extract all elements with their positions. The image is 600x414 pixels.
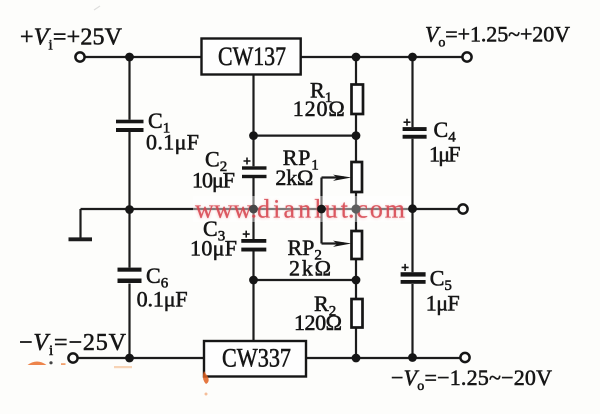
node terminal common [458, 204, 467, 213]
wire bottom rail right [307, 357, 462, 359]
resistor R2 [352, 299, 363, 328]
wire top rail right [301, 56, 464, 58]
capacitor C2 [242, 158, 267, 179]
svg-text:Vo=+1.25~+20V: Vo=+1.25~+20V [425, 22, 570, 51]
svg-text:CW137: CW137 [218, 42, 286, 71]
label C3 [190, 216, 237, 261]
watermark overlay [193, 195, 411, 225]
svg-text:0.1μF: 0.1μF [137, 287, 188, 312]
ground [69, 209, 93, 239]
wire RP2 wiper arm [322, 242, 345, 244]
label C4 [429, 117, 461, 166]
capacitor C1 [116, 120, 144, 132]
node terminal output positive [462, 52, 471, 61]
wire resistor string vertical [355, 57, 357, 358]
resistor RP2 potentiometer body [333, 231, 362, 259]
resistor R1 [352, 85, 364, 115]
capacitor C4 [403, 119, 427, 139]
svg-text:2kΩ: 2kΩ [275, 165, 313, 190]
node junction top rail at C1 [125, 53, 134, 62]
node junction adj+ at R1 bottom [352, 131, 361, 140]
svg-text:−Vi=−25V: −Vi=−25V [19, 330, 127, 359]
node junction top rail at C4 [408, 53, 417, 62]
node junction bottom rail at R2 [352, 354, 361, 363]
label R1 [293, 78, 345, 122]
decorative orange scan artifacts [28, 6, 209, 396]
label input positive voltage [20, 24, 123, 53]
svg-text:1μF: 1μF [429, 142, 461, 167]
node junction adj- at R2 top [352, 276, 361, 285]
node junction top rail at R1 [352, 53, 361, 62]
node junction mid rail at pot string [351, 204, 360, 213]
IC U1 regulator CW137 [202, 39, 301, 75]
svg-text:120Ω: 120Ω [293, 96, 345, 121]
wire mid common rail [81, 208, 459, 210]
wire top rail left [84, 56, 202, 58]
label C6 [137, 263, 188, 312]
wire output cap branch vertical [411, 57, 413, 358]
node junction mid rail at wiper stub [317, 205, 326, 214]
svg-text:CW337: CW337 [222, 344, 291, 373]
IC U2 regulator CW337 [204, 341, 306, 377]
label C5 [426, 266, 460, 316]
capacitor C6 [118, 268, 142, 283]
svg-text:2kΩ: 2kΩ [289, 256, 331, 281]
label C2 [192, 147, 235, 193]
node junction mid rail at C2 [249, 205, 258, 214]
node terminal input positive [75, 52, 84, 61]
wire adj+ horizontal [254, 135, 357, 137]
node junction bottom rail at C6 branch [125, 354, 134, 363]
wire left vertical branch [128, 57, 130, 358]
node terminal output negative [460, 353, 469, 362]
wire CW137 adj pin vertical [252, 75, 254, 343]
svg-text:+Vi=+25V: +Vi=+25V [20, 24, 123, 53]
label C1 [146, 108, 199, 155]
svg-text:−Vo=−1.25~−20V: −Vo=−1.25~−20V [391, 365, 552, 394]
svg-text:1μF: 1μF [426, 291, 460, 316]
resistor RP1 potentiometer body [333, 162, 362, 192]
node junction mid rail at C1 branch [125, 205, 134, 214]
wire RP1 wiper arm [322, 176, 345, 178]
wire bottom rail left [77, 357, 204, 359]
capacitor C5 [401, 264, 426, 284]
node junction adj+ at CW137 [249, 131, 258, 140]
label R2 [294, 291, 342, 335]
svg-text:120Ω: 120Ω [294, 310, 342, 335]
node junction bottom rail at C5 branch [408, 353, 417, 362]
svg-text:10μF: 10μF [192, 168, 235, 193]
svg-text:0.1μF: 0.1μF [146, 130, 199, 155]
label output positive voltage [425, 22, 570, 51]
label input negative voltage [19, 330, 127, 359]
capacitor C3 [241, 231, 266, 252]
node junction adj- at CW337 [249, 276, 258, 285]
label output negative voltage [391, 365, 552, 394]
wire wiper common stub [320, 178, 322, 244]
label RP1 [275, 145, 318, 190]
node junction mid rail at C4 branch [408, 204, 417, 213]
label RP2 [288, 235, 332, 281]
node terminal input negative [68, 353, 77, 362]
svg-text:10μF: 10μF [190, 236, 237, 261]
wire adj- horizontal [254, 279, 357, 281]
